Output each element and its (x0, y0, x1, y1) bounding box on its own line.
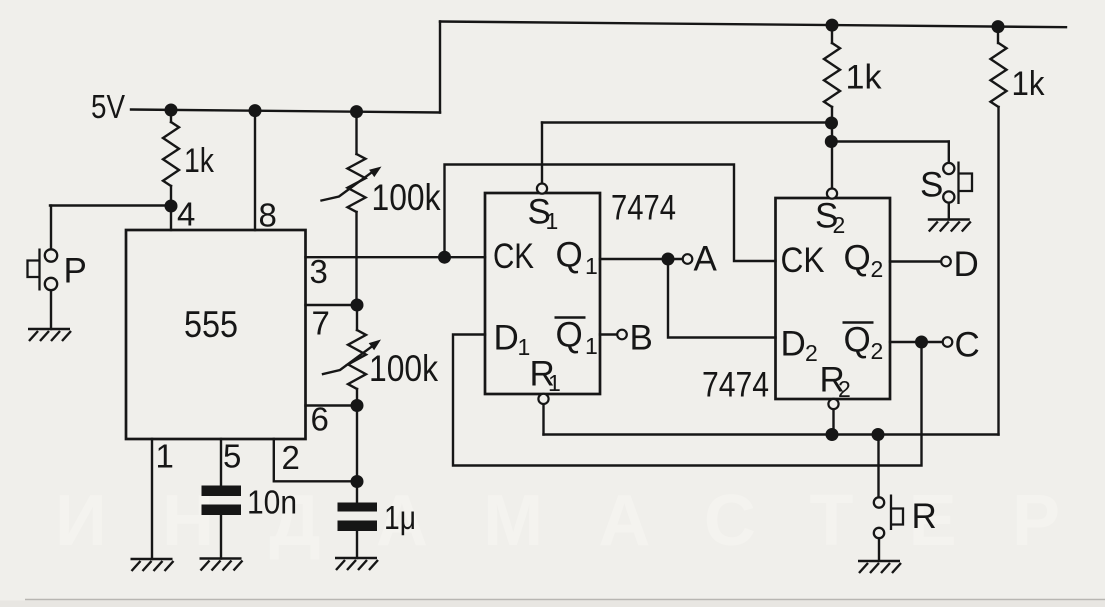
svg-text:C: C (955, 326, 980, 365)
svg-text:2: 2 (805, 340, 818, 366)
svg-text:2: 2 (833, 212, 846, 238)
svg-text:1: 1 (585, 253, 598, 279)
svg-text:P: P (64, 252, 87, 291)
svg-text:100k: 100k (369, 348, 438, 389)
svg-text:1μ: 1μ (384, 499, 416, 536)
svg-text:1: 1 (546, 208, 559, 234)
svg-text:6: 6 (311, 401, 329, 438)
svg-text:D: D (954, 245, 979, 284)
svg-text:A: A (694, 240, 718, 279)
svg-text:7474: 7474 (702, 366, 769, 405)
svg-text:2: 2 (838, 376, 851, 402)
svg-text:D: D (781, 325, 806, 364)
svg-text:Q: Q (556, 236, 583, 275)
svg-text:CK: CK (781, 241, 825, 280)
svg-text:2: 2 (871, 338, 884, 364)
svg-text:Q: Q (556, 316, 583, 355)
svg-text:S: S (920, 166, 943, 205)
svg-text:2: 2 (871, 256, 884, 282)
svg-text:1: 1 (548, 370, 561, 396)
svg-text:2: 2 (282, 439, 300, 476)
svg-text:1: 1 (585, 333, 598, 359)
svg-text:CK: CK (493, 237, 534, 276)
svg-text:7: 7 (312, 305, 330, 342)
svg-text:Q: Q (844, 321, 871, 360)
svg-text:1: 1 (156, 438, 174, 475)
svg-text:4: 4 (177, 196, 195, 233)
svg-text:5V: 5V (91, 88, 125, 125)
svg-text:7474: 7474 (611, 189, 676, 228)
svg-text:5: 5 (223, 438, 241, 475)
svg-text:1k: 1k (184, 142, 215, 180)
svg-text:8: 8 (259, 197, 277, 234)
svg-text:1k: 1k (1012, 65, 1046, 103)
svg-text:1k: 1k (846, 59, 883, 97)
svg-text:555: 555 (184, 304, 238, 345)
svg-text:D: D (494, 319, 519, 358)
svg-text:1: 1 (518, 334, 531, 360)
svg-text:10n: 10n (247, 484, 297, 521)
svg-text:R: R (912, 497, 937, 536)
svg-text:B: B (630, 319, 653, 358)
svg-text:Q: Q (844, 239, 871, 278)
svg-text:100k: 100k (372, 177, 441, 218)
svg-text:3: 3 (310, 253, 328, 290)
